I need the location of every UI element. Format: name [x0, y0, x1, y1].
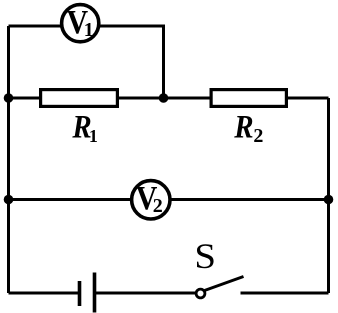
svg-text:1: 1	[84, 19, 94, 41]
svg-text:2: 2	[253, 125, 263, 147]
svg-text:1: 1	[89, 126, 98, 146]
svg-text:2: 2	[153, 195, 163, 217]
svg-text:S: S	[194, 237, 216, 276]
svg-text:R: R	[233, 108, 253, 145]
